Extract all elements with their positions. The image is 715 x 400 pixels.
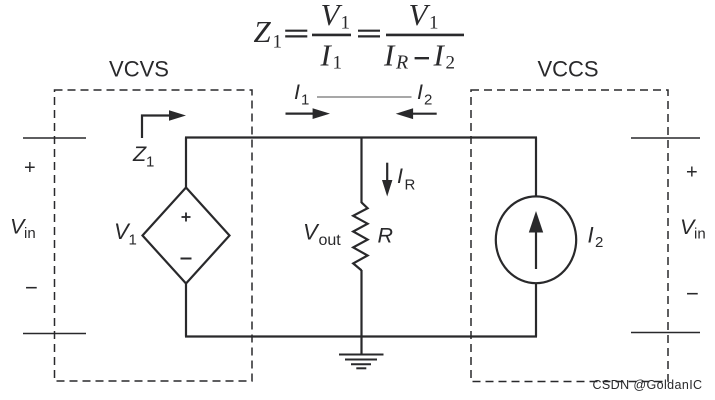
arrow I2 (pointing left): [396, 108, 437, 119]
svg-text:−: −: [25, 275, 38, 300]
svg-text:2: 2: [446, 53, 456, 74]
svg-text:R: R: [378, 224, 394, 248]
reference line between I1 and I2: [317, 96, 412, 98]
svg-text:in: in: [694, 226, 706, 243]
svg-text:1: 1: [333, 53, 343, 74]
dependent current source I2 (circle with up arrow): [496, 196, 576, 283]
svg-text:V: V: [409, 0, 431, 32]
svg-text:R: R: [395, 52, 408, 74]
wire top horizontal (node between sources and R): [185, 136, 537, 138]
svg-text:1: 1: [341, 13, 351, 34]
formula Z1 = V1/I1 = V1/(IR - I2): [254, 0, 465, 74]
wire resistor top stub: [360, 137, 362, 204]
svg-text:I: I: [588, 223, 594, 248]
terminal right bottom: [631, 332, 700, 334]
svg-text:VCCS: VCCS: [537, 57, 598, 82]
svg-text:1: 1: [273, 32, 283, 53]
svg-text:2: 2: [595, 234, 603, 251]
wire current source bottom stub: [535, 283, 537, 337]
svg-text:V: V: [321, 0, 343, 32]
svg-text:Z: Z: [132, 142, 147, 166]
svg-text:I: I: [433, 38, 446, 73]
terminal left bottom: [23, 333, 86, 335]
dependent voltage source V1 (diamond): [143, 188, 230, 284]
svg-text:VCVS: VCVS: [109, 57, 169, 82]
current label I2 (top): [417, 80, 432, 109]
ground: [339, 355, 384, 369]
svg-text:1: 1: [429, 13, 439, 34]
svg-text:R: R: [405, 177, 416, 194]
svg-text:+: +: [24, 157, 36, 179]
label IR: [397, 164, 416, 194]
svg-text:+: +: [686, 162, 698, 184]
svg-text:out: out: [319, 232, 342, 249]
wire resistor bottom stub to ground: [360, 270, 362, 355]
wire diamond top stub: [185, 138, 187, 190]
arrow I1 (pointing right): [286, 108, 331, 119]
terminal left top: [23, 137, 86, 139]
svg-text:I: I: [383, 38, 396, 73]
VCCS enclosure dashed box: [471, 90, 668, 382]
wire current source top stub: [535, 138, 537, 198]
label I2 (current source value): [588, 223, 604, 252]
current label I1: [294, 80, 309, 109]
svg-text:I: I: [320, 38, 333, 73]
svg-text:in: in: [24, 225, 36, 242]
resistor R (zigzag): [353, 202, 367, 270]
impedance arrow Z1 (looking-in arrow): [142, 110, 186, 138]
terminal right top: [631, 137, 700, 139]
svg-text:1: 1: [301, 92, 309, 109]
label V1: [114, 219, 137, 249]
svg-text:I: I: [417, 80, 423, 104]
label Vout: [303, 220, 341, 250]
svg-text:I: I: [397, 164, 403, 188]
VCVS enclosure dashed box: [55, 90, 253, 381]
svg-text:V: V: [303, 220, 320, 245]
svg-text:Z: Z: [254, 14, 272, 49]
label Vin left: [10, 215, 36, 243]
label Vin right: [680, 215, 706, 243]
svg-text:I: I: [294, 80, 300, 104]
svg-text:1: 1: [129, 232, 137, 249]
svg-text:2: 2: [424, 92, 432, 109]
current arrow IR: [382, 163, 392, 197]
svg-text:1: 1: [146, 154, 154, 171]
wire bottom horizontal: [185, 335, 537, 337]
wire diamond bottom stub: [185, 283, 187, 337]
svg-text:−: −: [686, 281, 699, 306]
svg-text:CSDN @GoldanIC: CSDN @GoldanIC: [593, 378, 703, 392]
label Z1: [132, 142, 154, 171]
